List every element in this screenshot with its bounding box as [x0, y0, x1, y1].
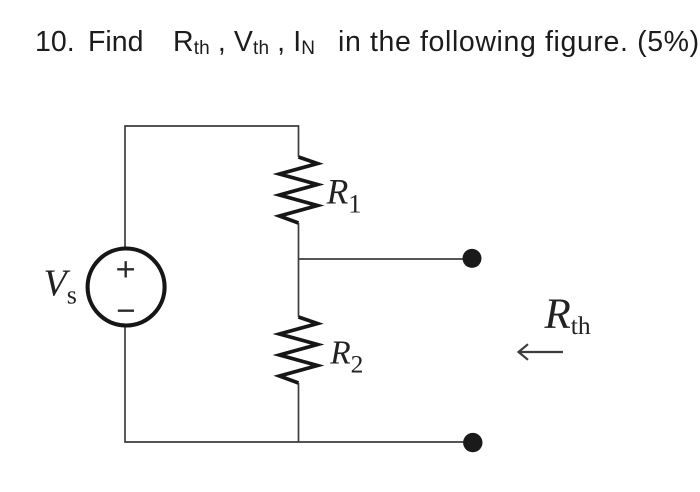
- svg-text:R2: R2: [329, 335, 363, 379]
- svg-text:R1: R1: [326, 172, 362, 219]
- svg-text:Rth: Rth: [544, 291, 591, 340]
- svg-text:Vs: Vs: [44, 263, 77, 310]
